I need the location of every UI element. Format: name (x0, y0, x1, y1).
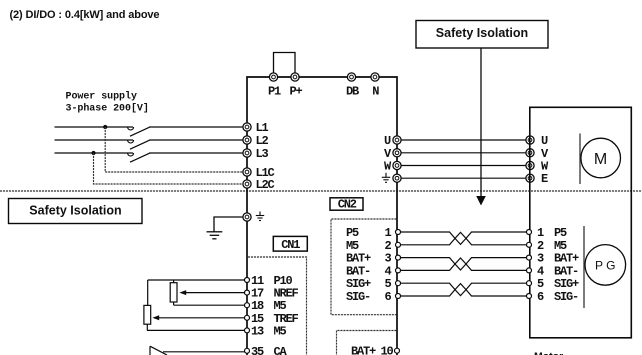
terminal L1 (243, 121, 269, 135)
CN2 twisted pair wires pins 3-4 (400, 258, 528, 271)
svg-text:Motor: Motor (534, 351, 563, 355)
encoder PG circle (585, 245, 626, 286)
svg-text:Safety Isolation: Safety Isolation (436, 26, 528, 40)
CN1 pin 13 M5 (147, 324, 287, 338)
Safety Isolation callout box top (416, 21, 548, 49)
svg-text:P G: P G (595, 258, 615, 272)
ground terminal on SERVOPACK (243, 213, 251, 221)
CN1 pin 15 TREF with wiper arrow (152, 312, 298, 326)
CN2 pin 5 SIG+ (motor side) (527, 277, 580, 291)
svg-text:6: 6 (537, 290, 544, 304)
CN2 pin 2 M5 (SERVOPACK side) (346, 239, 401, 253)
svg-text:3-phase 200[V]: 3-phase 200[V] (66, 103, 149, 115)
CN2 pin 1 P5 (SERVOPACK side) (346, 226, 401, 240)
svg-text:P+: P+ (290, 85, 303, 99)
SERVOPACK amplifier block outline U1 (247, 77, 397, 355)
earth glyph label left of E terminal (382, 173, 390, 183)
jumper between P1 and P+ (274, 53, 296, 77)
svg-text:P1: P1 (268, 85, 281, 99)
svg-text:L1: L1 (256, 121, 269, 135)
safety isolation pointer wire (480, 48, 482, 197)
potentiometer VR1 (NREF) (170, 280, 177, 305)
CN1 pin 35 CA (163, 345, 288, 355)
svg-text:L2: L2 (256, 134, 269, 148)
terminal P1 (268, 73, 281, 99)
svg-text:CN2: CN2 (338, 198, 357, 212)
svg-text:(2) DI/DO : 0.4[kW] and above: (2) DI/DO : 0.4[kW] and above (10, 9, 160, 21)
CN1 connector outline (248, 257, 307, 355)
wire phase 3 with switch S3 (55, 153, 243, 162)
svg-text:DB: DB (346, 85, 359, 99)
CN2 twisted pair wires pins 1-2 (400, 232, 528, 245)
svg-text:Power supply: Power supply (66, 91, 137, 103)
CN1 label box (273, 236, 307, 252)
wire E (earth) from SERVOPACK to motor (393, 172, 548, 186)
svg-text:N: N (372, 85, 379, 99)
CN2 pin 6 SIG- (SERVOPACK side) (346, 290, 401, 304)
svg-text:SIG-: SIG- (554, 290, 578, 304)
svg-text:SIG-: SIG- (346, 290, 370, 304)
terminal L3 (243, 147, 269, 161)
svg-text:M5: M5 (274, 324, 287, 338)
svg-text:E: E (541, 172, 548, 186)
CN2 pin 6 SIG- (motor side) (527, 290, 579, 304)
svg-text:10: 10 (381, 345, 394, 355)
motor M circle (581, 138, 621, 178)
CN1 pin 17 NREF with wiper arrow (179, 287, 298, 301)
svg-text:Safety Isolation: Safety Isolation (29, 204, 121, 218)
safety isolation pointer arrowhead (476, 196, 486, 206)
motor shaft bar (579, 134, 581, 185)
wire phase 1 with switch S1 (55, 127, 243, 136)
svg-text:35: 35 (251, 345, 264, 355)
dotted wire to L2C (94, 153, 243, 184)
svg-text:CA: CA (274, 345, 288, 355)
potentiometer VR2 (TREF) (144, 280, 151, 330)
CN2 pin 3 BAT+ (SERVOPACK side) (346, 252, 401, 266)
CN2 twisted pair wires pins 5-6 (400, 283, 528, 296)
junction dot on phase 1 (103, 125, 107, 129)
CN2 pin 5 SIG+ (SERVOPACK side) (346, 277, 401, 291)
wire W from SERVOPACK to motor (384, 160, 549, 174)
wire from ground terminal to earth (214, 217, 243, 232)
svg-text:13: 13 (251, 324, 264, 338)
wire phase 2 with switch S2 (55, 140, 243, 149)
terminal L1C (243, 166, 275, 180)
motor block outline (530, 107, 632, 337)
terminal P+ (290, 73, 303, 99)
switch contact at pin 35 (cut off) (150, 346, 167, 355)
encoder shaft bar (583, 226, 585, 308)
junction dot on phase 3 (91, 151, 95, 155)
wire U from SERVOPACK to motor (384, 134, 548, 148)
svg-text:L2C: L2C (256, 178, 275, 192)
CN2 label box (330, 198, 363, 212)
battery connector outline (337, 331, 397, 355)
CN2 pin 2 M5 (motor side) (527, 239, 568, 253)
CN2 connector outline (331, 219, 397, 315)
CN1 pin 11 P10 (148, 274, 293, 288)
svg-text:BAT+: BAT+ (351, 345, 376, 355)
pin 10 terminal (395, 348, 400, 353)
svg-text:6: 6 (385, 290, 392, 304)
earth glyph label at ground terminal (256, 212, 264, 221)
wire V from SERVOPACK to motor (384, 147, 549, 161)
svg-text:L3: L3 (256, 147, 269, 161)
safety isolation boundary dotted line (0, 190, 642, 192)
terminal L2 (243, 134, 269, 148)
dotted wire to L1C (105, 127, 242, 172)
Safety Isolation callout box left (9, 199, 143, 224)
CN2 pin 4 BAT- (motor side) (527, 264, 579, 278)
svg-text:CN1: CN1 (281, 238, 300, 252)
svg-text:M: M (594, 151, 607, 168)
ground symbol (207, 232, 223, 239)
CN1 pin 18 M5 (174, 299, 287, 313)
CN2 pin 4 BAT- (SERVOPACK side) (346, 264, 401, 278)
terminal N (371, 73, 379, 99)
terminal DB (346, 73, 359, 99)
terminal L2C (243, 178, 275, 192)
CN2 pin 1 P5 (motor side) (527, 226, 568, 240)
CN2 pin 3 BAT+ (motor side) (527, 252, 580, 266)
